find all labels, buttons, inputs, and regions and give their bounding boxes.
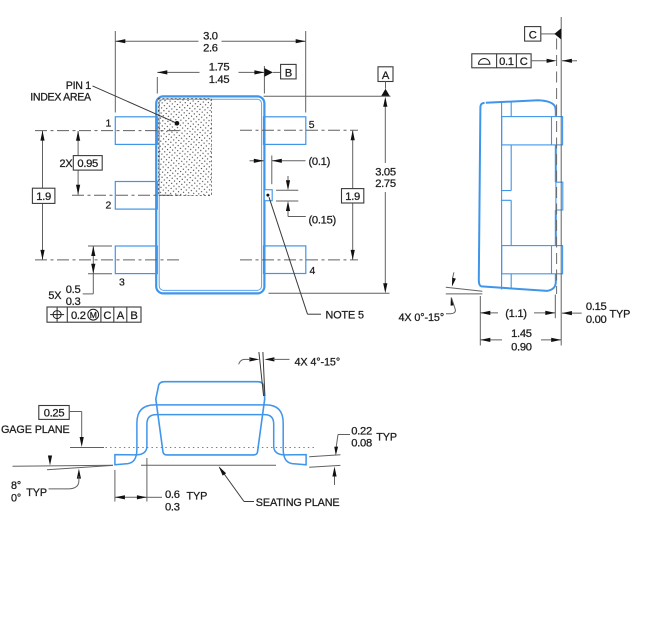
svg-text:TYP: TYP bbox=[376, 431, 397, 443]
svg-text:0.00: 0.00 bbox=[586, 314, 607, 326]
svg-text:(0.15): (0.15) bbox=[309, 214, 337, 226]
svg-text:0.90: 0.90 bbox=[511, 342, 532, 354]
svg-text:1.9: 1.9 bbox=[36, 191, 51, 203]
svg-text:INDEX AREA: INDEX AREA bbox=[30, 91, 92, 103]
svg-text:1.45: 1.45 bbox=[511, 328, 532, 340]
svg-text:0.08: 0.08 bbox=[351, 437, 372, 449]
svg-text:0.2: 0.2 bbox=[71, 310, 86, 322]
dimension 3.0/2.6 extension lines bbox=[114, 31, 116, 113]
svg-text:0.3: 0.3 bbox=[66, 296, 81, 308]
dimension 0.22/0.08 TYP bbox=[309, 455, 340, 457]
svg-text:3.0: 3.0 bbox=[203, 30, 218, 42]
dimension 4X 4-15 arrows bbox=[249, 357, 259, 361]
svg-text:PIN 1: PIN 1 bbox=[66, 80, 91, 92]
side mold parting line bbox=[501, 102, 503, 290]
svg-text:4X 0°-15°: 4X 0°-15° bbox=[399, 312, 445, 324]
svg-text:TYP: TYP bbox=[610, 308, 631, 320]
svg-text:NOTE 5: NOTE 5 bbox=[326, 309, 364, 321]
dimension 2X 0.95 bbox=[77, 131, 79, 156]
side lead pin 4 bbox=[502, 246, 563, 274]
gage plane callout bbox=[39, 406, 69, 420]
profile tolerance frame 0.1 C bbox=[472, 54, 531, 68]
svg-text:2: 2 bbox=[106, 201, 112, 212]
dimension 3.0/2.6 bbox=[115, 40, 198, 42]
svg-text:2X: 2X bbox=[59, 158, 72, 170]
svg-text:0.5: 0.5 bbox=[66, 284, 81, 296]
pin 4 lead (top view) bbox=[264, 246, 306, 274]
svg-text:B: B bbox=[285, 67, 292, 79]
svg-text:(0.1): (0.1) bbox=[309, 156, 331, 168]
svg-text:C: C bbox=[103, 310, 111, 322]
datum C symbol bbox=[525, 27, 541, 41]
seating plane leader bbox=[220, 468, 245, 502]
svg-text:1: 1 bbox=[106, 118, 112, 129]
svg-text:5X: 5X bbox=[48, 290, 61, 302]
pin 3 lead (top view) bbox=[115, 246, 157, 274]
8/0 angle lines bbox=[13, 465, 114, 466]
body top edge extension to datum A bbox=[264, 95, 391, 97]
centerline pin 1 bbox=[35, 130, 181, 132]
seating plane line bbox=[141, 464, 276, 466]
svg-text:C: C bbox=[520, 56, 528, 68]
dimension 4X 0-15 (side bottom left) bbox=[446, 287, 483, 291]
svg-text:3.05: 3.05 bbox=[375, 166, 396, 178]
body bottom edge extension bbox=[269, 292, 390, 294]
side lead pin 2 at parting line bbox=[501, 191, 511, 201]
svg-text:0.3: 0.3 bbox=[165, 502, 180, 514]
svg-text:A: A bbox=[117, 310, 125, 322]
dimension 0.15/0.00 TYP bbox=[562, 312, 582, 314]
svg-text:0.25: 0.25 bbox=[44, 408, 65, 420]
svg-text:5: 5 bbox=[309, 120, 315, 131]
svg-text:1.45: 1.45 bbox=[209, 74, 230, 86]
svg-text:C: C bbox=[529, 30, 537, 42]
dimension 3.05/2.75 bbox=[384, 106, 386, 163]
svg-text:TYP: TYP bbox=[26, 487, 47, 499]
datum C solid line bbox=[560, 17, 562, 346]
package body outline (top view, thick) bbox=[156, 96, 264, 293]
dimension 1.9 left (pins 1-3) bbox=[42, 131, 44, 189]
draft angle lines 4X 4-15 bbox=[259, 352, 264, 396]
centerline pin 2 bbox=[72, 194, 181, 196]
svg-text:A: A bbox=[382, 70, 390, 82]
svg-text:0.22: 0.22 bbox=[351, 425, 372, 437]
centerline pin 3 bbox=[35, 259, 181, 261]
gage plane line bbox=[70, 447, 104, 449]
svg-text:8°: 8° bbox=[11, 480, 21, 492]
centerline pin 5 bbox=[240, 129, 358, 131]
svg-text:GAGE PLANE: GAGE PLANE bbox=[1, 424, 70, 436]
dimension 0.6/0.3 TYP bbox=[114, 470, 116, 502]
datum C dashed line bbox=[556, 39, 558, 295]
pin 1 index leader bbox=[93, 86, 178, 123]
datum B symbol bbox=[264, 68, 273, 77]
pin 5 lead (top view) bbox=[264, 117, 306, 145]
pin 1 lead (top view) bbox=[115, 117, 157, 145]
svg-text:3: 3 bbox=[119, 278, 125, 289]
side inner line x=511 bbox=[510, 101, 512, 289]
dimension (0.1) bbox=[271, 156, 273, 185]
svg-text:2.6: 2.6 bbox=[203, 43, 218, 55]
dimension (1.1) bbox=[479, 296, 481, 346]
pin 1 index area stipple bbox=[158, 99, 211, 196]
svg-text:0.6: 0.6 bbox=[165, 489, 180, 501]
svg-text:4: 4 bbox=[310, 266, 316, 277]
svg-text:4X 4°-15°: 4X 4°-15° bbox=[295, 356, 341, 368]
svg-text:0.15: 0.15 bbox=[586, 301, 607, 313]
lead band (gull wing leads) bbox=[115, 405, 306, 465]
svg-text:(1.1): (1.1) bbox=[505, 308, 527, 320]
dimension 1.9 right (pins 5-4) bbox=[352, 130, 354, 188]
side lead pin 5 bbox=[502, 117, 563, 145]
svg-text:B: B bbox=[130, 310, 137, 322]
svg-text:0.95: 0.95 bbox=[77, 158, 98, 170]
svg-text:0°: 0° bbox=[11, 493, 21, 505]
svg-text:2.75: 2.75 bbox=[375, 178, 396, 190]
body outline (front view) bbox=[156, 382, 265, 455]
dimension 1.75/1.45 extension lines bbox=[156, 77, 158, 94]
svg-text:1.75: 1.75 bbox=[209, 62, 230, 74]
note 5 feature square bbox=[264, 190, 272, 201]
pin 2 lead (top view) bbox=[115, 182, 157, 210]
datum A symbol bbox=[378, 67, 393, 82]
svg-text:TYP: TYP bbox=[187, 490, 208, 502]
side body outline bbox=[479, 100, 556, 291]
svg-text:1.9: 1.9 bbox=[345, 191, 360, 203]
profile frame leader arrows bbox=[531, 60, 548, 62]
dimension 1.75/1.45 bbox=[157, 71, 199, 73]
dimension 1.45/0.90 bbox=[480, 339, 502, 341]
svg-text:M: M bbox=[90, 310, 97, 320]
centerline pin 4 bbox=[240, 259, 358, 261]
feature control frame: position 0.2 M C A B bbox=[47, 307, 141, 322]
dimension (0.15) bbox=[276, 189, 298, 191]
8/0 arrows bbox=[49, 455, 51, 457]
svg-text:0.1: 0.1 bbox=[499, 56, 514, 68]
svg-text:SEATING PLANE: SEATING PLANE bbox=[256, 497, 340, 509]
side lead pin 2 tip bbox=[556, 182, 563, 210]
dimension 5X 0.5/0.3 bbox=[88, 245, 112, 247]
note 5 leader bbox=[269, 197, 308, 314]
package body outline (top view, thin inner line) bbox=[159, 99, 261, 290]
